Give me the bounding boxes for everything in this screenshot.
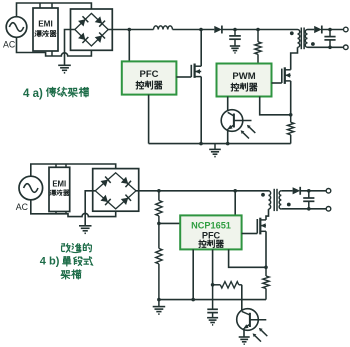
capacitor C4 output — [303, 191, 314, 209]
wire Q1 source drop — [200, 77, 202, 144]
op-amp box U2 PWM controller — [217, 64, 272, 97]
node T1 secondary phase dot — [311, 42, 315, 46]
EMI filter box F2 — [49, 167, 70, 211]
transformer T2 primary — [269, 191, 271, 209]
diode BR2 top-left — [100, 177, 110, 187]
ground GND-OC2 — [239, 337, 250, 344]
EMI filter box F1 — [33, 8, 58, 51]
wire source junction to PWM bottom — [260, 97, 291, 115]
terminal out1+ — [344, 27, 349, 32]
node rail1-C1 — [233, 28, 237, 32]
wire opto1 emitter — [227, 129, 229, 144]
label 改進的 — [62, 243, 92, 252]
node R5 junction — [211, 283, 215, 287]
transistor OC1 phototransistor — [227, 112, 251, 129]
wire opto2 emitter — [243, 328, 245, 337]
transistor Q2 MOSFET — [272, 67, 291, 84]
node divider tap — [157, 222, 161, 226]
label PFC (U3) — [202, 230, 221, 240]
diode BR2 top-right — [121, 177, 131, 187]
resistor R2 sense — [288, 115, 294, 144]
label AC (V2) — [16, 202, 29, 212]
node source-rail1 — [199, 142, 203, 146]
wire NCP pin2 — [212, 249, 214, 284]
wire bottom rail circuit1 — [149, 143, 291, 145]
node rail2-divider — [157, 189, 161, 193]
wire PFC bottom pin — [148, 95, 150, 144]
wire NCP feedback pin — [229, 249, 266, 267]
wire to output+ circuit1 — [322, 29, 344, 31]
diode BR2 bottom-right — [121, 195, 131, 205]
ground GND1b — [209, 144, 221, 157]
ground GND1a — [58, 65, 71, 73]
bridge BR1 diamond — [75, 13, 108, 46]
inductor L1 — [154, 26, 173, 30]
node T2 secondary phase dot — [287, 203, 291, 207]
wire DC rail 1 (bridge to inductor) — [108, 29, 153, 31]
diode D4 output — [293, 187, 301, 195]
svg-text:PWM: PWM — [232, 71, 255, 82]
ground GND2a — [79, 226, 92, 234]
wire NCP top pin — [234, 191, 236, 216]
label EMI (F1) — [38, 20, 53, 29]
node out2 top — [307, 189, 311, 193]
label 架構 line3 — [61, 270, 81, 279]
wire BR1 left vertex to ground line — [65, 30, 75, 66]
wire NCP gnd pin — [192, 249, 194, 299]
label PWM (U2) — [232, 71, 255, 82]
terminal out1- — [344, 45, 349, 50]
diode BR1 top-right — [95, 16, 105, 26]
label 4 a) heading — [23, 87, 89, 100]
wire T2 secondary bottom — [281, 208, 326, 210]
diode BR1 top-left — [78, 16, 88, 26]
wire to output+ circuit2 — [300, 190, 326, 192]
transformer T2 secondary — [279, 191, 281, 209]
wire T1 secondary top — [308, 29, 315, 31]
node NCP-gnd-rail3 — [191, 298, 195, 302]
node rail2-NCP — [233, 189, 237, 193]
resistor R4 divider bottom — [156, 223, 162, 299]
wire T2 secondary top — [281, 190, 292, 192]
capacitor C2 output — [324, 30, 335, 48]
svg-text:PFC: PFC — [202, 230, 221, 240]
wire T2 primary to Q3 drain — [266, 209, 269, 220]
optocoupler OC1 circle — [221, 110, 243, 132]
wire tap to NCP left pin — [159, 222, 180, 224]
diode D1 boost — [214, 26, 222, 34]
svg-text:PFC: PFC — [140, 69, 159, 80]
capacitor C3 — [207, 285, 218, 318]
node divider-rail3 — [157, 298, 161, 302]
resistor R1 (rail to PWM) — [255, 30, 261, 64]
wire EMI2 stubs — [56, 164, 66, 214]
bridge rectifier BR2 box — [93, 169, 139, 212]
diode BR1 bottom-left — [78, 33, 88, 43]
capacitor C1 — [229, 30, 241, 47]
wire AC2 top to bridge top — [31, 164, 116, 176]
ground GND2b — [153, 300, 166, 315]
label AC (V1) — [3, 40, 16, 50]
transformer T2 core — [274, 189, 277, 211]
label 控制器 (U1) — [136, 81, 162, 89]
label 濾波器 (F1) — [35, 30, 56, 36]
wire Q3 source — [265, 231, 267, 267]
node rail1-R1 — [256, 28, 260, 32]
wire opto1 collector pin — [227, 97, 229, 113]
diode BR1 bottom-right — [95, 33, 105, 43]
svg-text:EMI: EMI — [38, 20, 53, 29]
wire DC rail circuit2 — [136, 190, 269, 192]
AC source V2 — [19, 176, 43, 200]
node out2 bottom — [307, 207, 311, 211]
wire EMI1 stubs — [40, 3, 52, 56]
transistor OC2 phototransistor — [242, 311, 266, 329]
label PFC (U1) — [140, 69, 159, 80]
wire opto2 collector — [241, 285, 243, 312]
node rail1-Q1 drain — [199, 28, 203, 32]
wire rail1 D1 to transformer T1 — [222, 29, 297, 31]
svg-text:AC: AC — [16, 202, 29, 212]
transformer T1 primary — [298, 30, 300, 48]
wire PFC input pin — [128, 30, 130, 62]
svg-text:NCP1651: NCP1651 — [191, 221, 231, 231]
op-amp box U3 NCP1651 PFC controller — [180, 215, 241, 249]
wire AC1 top to bridge top — [17, 3, 92, 17]
node rail1-PFC — [128, 28, 132, 32]
resistor R6 sense — [263, 267, 269, 299]
node T1 primary phase dot — [290, 31, 294, 35]
node T2 primary phase dot — [261, 193, 265, 197]
transformer T1 secondary — [305, 30, 307, 48]
resistor R5 horizontal — [213, 282, 242, 288]
wire Q1 drain riser — [200, 30, 202, 67]
bridge rectifier BR1 box — [71, 9, 113, 50]
svg-text:AC: AC — [3, 40, 16, 50]
wire Q2 source — [290, 81, 292, 115]
wire AC2 bottom with hop — [31, 200, 116, 217]
optocoupler OC2 circle — [237, 309, 259, 331]
label NCP1651 (U3) — [191, 221, 231, 231]
node Q2 source junction — [289, 113, 293, 117]
svg-text:4 a): 4 a) — [23, 88, 43, 100]
transformer T1 core — [301, 28, 304, 50]
diode D2 output — [314, 26, 322, 34]
terminal out2- — [326, 207, 331, 212]
transistor Q3 MOSFET — [242, 218, 266, 235]
ground GND-C3 — [207, 318, 218, 325]
wire rail1 inductor to diode D1 — [173, 29, 215, 31]
bridge BR2 diamond — [95, 173, 136, 209]
wire T1 primary to Q2 drain — [291, 47, 298, 70]
light arrows OC2 — [253, 328, 268, 342]
transistor Q1 MOSFET — [176, 64, 201, 78]
label EMI (F2) — [52, 180, 66, 189]
node opto1-rail1 — [226, 142, 230, 146]
terminal out2+ — [326, 189, 331, 194]
label 4 b) 單段式 — [40, 256, 93, 268]
resistor R3 divider top — [156, 191, 162, 224]
wire T1 secondary bottom — [308, 46, 344, 48]
label 濾波器 (F2) — [50, 190, 69, 196]
AC source V1 — [6, 17, 27, 38]
diode BR2 bottom-left — [100, 195, 110, 205]
svg-text:4 b): 4 b) — [40, 256, 60, 268]
node out1 bottom — [328, 46, 332, 50]
wire AC1 bottom with hop over ground line — [17, 37, 92, 56]
wire BR2 left vertex to ground — [85, 191, 95, 226]
light arrows OC1 — [241, 125, 256, 139]
ground GND-C1 — [230, 46, 240, 53]
label 控制器 (U2) — [231, 83, 257, 91]
svg-text:EMI: EMI — [52, 180, 66, 189]
label 控制器 (U3) — [199, 240, 223, 248]
op-amp box U1 PFC controller — [122, 61, 177, 94]
node Q3 source junction — [264, 266, 268, 270]
node out1 top — [328, 28, 332, 32]
wire bottom rail circuit2 — [159, 299, 266, 301]
